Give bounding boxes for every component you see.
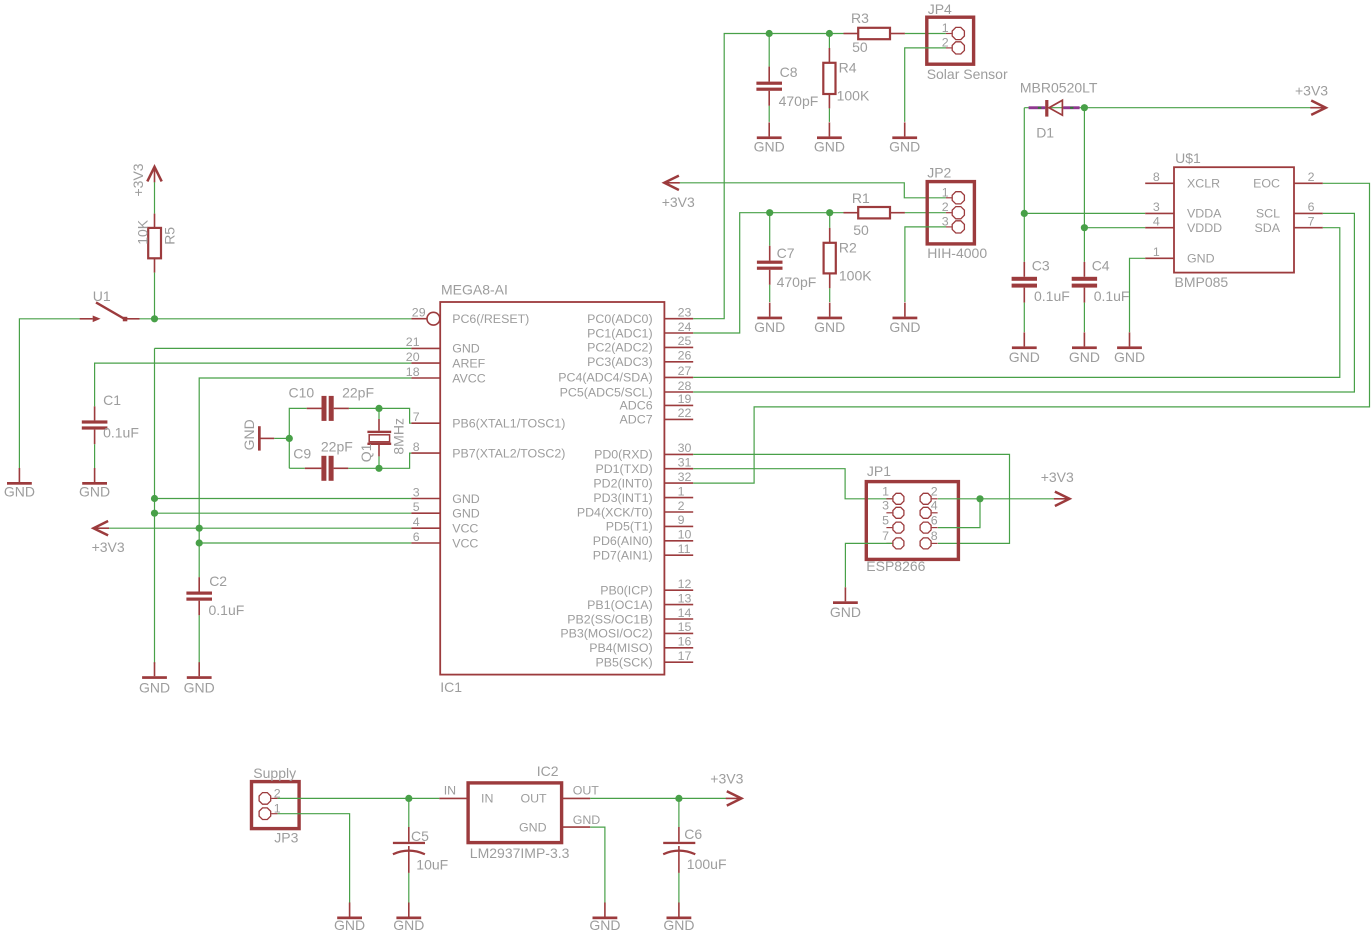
svg-text:U1: U1 — [93, 288, 111, 304]
svg-text:PC6(/RESET): PC6(/RESET) — [452, 312, 529, 326]
power +3V3 (left arrow) — [92, 521, 125, 555]
svg-text:PC0(ADC0): PC0(ADC0) — [587, 312, 652, 326]
wire — [109, 527, 411, 529]
svg-text:4: 4 — [1153, 215, 1160, 229]
ground — [754, 122, 785, 154]
connector JP3 Supply — [252, 765, 300, 846]
svg-text:C5: C5 — [411, 828, 429, 844]
svg-text:C9: C9 — [293, 446, 311, 462]
connector JP1 ESP8266 — [866, 463, 958, 574]
svg-text:23: 23 — [678, 306, 692, 320]
wire — [198, 615, 200, 664]
ground — [814, 303, 845, 336]
svg-text:10K: 10K — [134, 219, 150, 245]
svg-text:ESP8266: ESP8266 — [866, 558, 925, 574]
svg-text:10uF: 10uF — [416, 856, 448, 872]
svg-text:+3V3: +3V3 — [130, 163, 146, 196]
svg-text:PB6(XTAL1/TOSC1): PB6(XTAL1/TOSC1) — [452, 417, 565, 431]
svg-text:SDA: SDA — [1255, 221, 1281, 235]
svg-text:9: 9 — [678, 513, 685, 527]
op-amp U$1 BMP085 — [1145, 150, 1323, 290]
svg-text:R4: R4 — [839, 60, 857, 76]
svg-text:GND: GND — [814, 139, 845, 155]
wire — [155, 512, 412, 514]
ground — [754, 303, 785, 336]
wire — [289, 408, 306, 468]
wire — [693, 213, 843, 333]
capacitor C3 — [1012, 257, 1070, 304]
wire — [154, 348, 156, 664]
svg-text:22: 22 — [678, 406, 692, 420]
capacitor C6 — [663, 798, 726, 873]
svg-text:PD1(TXD): PD1(TXD) — [595, 462, 652, 476]
svg-text:GND: GND — [754, 319, 785, 335]
ground — [663, 903, 694, 933]
resistor R3 — [844, 10, 905, 55]
svg-text:GND: GND — [1187, 252, 1215, 266]
connector JP4 Solar Sensor — [927, 1, 1008, 82]
capacitor C5 — [393, 798, 448, 873]
resistor R1 — [844, 190, 905, 238]
wire — [379, 408, 411, 423]
ground — [589, 903, 620, 933]
capacitor C9 — [289, 438, 353, 481]
svg-text:OUT: OUT — [573, 784, 600, 798]
wire — [274, 437, 289, 439]
svg-text:4: 4 — [413, 515, 420, 529]
svg-text:HIH-4000: HIH-4000 — [927, 245, 987, 261]
wire — [199, 542, 411, 544]
svg-text:BMP085: BMP085 — [1175, 274, 1229, 290]
svg-text:+3V3: +3V3 — [710, 770, 743, 786]
svg-text:2: 2 — [931, 485, 938, 499]
svg-text:IN: IN — [444, 784, 456, 798]
svg-text:GND: GND — [754, 139, 785, 155]
wire — [199, 378, 411, 577]
wire — [693, 213, 1354, 392]
wire — [154, 273, 156, 319]
capacitor C10 — [289, 384, 375, 421]
svg-text:JP4: JP4 — [928, 1, 952, 17]
node junction — [766, 30, 773, 37]
power +3V3 (left arrow) — [662, 176, 695, 210]
wire — [19, 319, 79, 469]
svg-text:7: 7 — [413, 410, 420, 424]
svg-text:20: 20 — [406, 350, 420, 364]
wire — [379, 453, 411, 468]
svg-text:PB2(SS/OC1B): PB2(SS/OC1B) — [567, 612, 652, 626]
svg-text:C7: C7 — [777, 245, 795, 261]
svg-text:470pF: 470pF — [779, 93, 819, 109]
svg-text:LM2937IMP-3.3: LM2937IMP-3.3 — [470, 845, 570, 861]
node junction — [766, 209, 773, 216]
svg-text:IC1: IC1 — [440, 679, 462, 695]
capacitor C7 — [757, 213, 816, 291]
svg-text:PD2(INT0): PD2(INT0) — [593, 476, 652, 490]
svg-text:GND: GND — [889, 319, 920, 335]
svg-text:27: 27 — [678, 364, 692, 378]
node junction — [375, 465, 382, 472]
wire — [680, 183, 946, 198]
svg-text:GND: GND — [184, 679, 215, 695]
svg-text:IN: IN — [481, 792, 493, 806]
svg-text:ADC7: ADC7 — [620, 413, 653, 427]
ground — [814, 122, 845, 154]
svg-text:30: 30 — [678, 441, 692, 455]
svg-text:1: 1 — [882, 485, 889, 499]
svg-text:IC2: IC2 — [537, 763, 559, 779]
node junction — [375, 405, 382, 412]
wire — [828, 108, 830, 122]
svg-text:6: 6 — [413, 530, 420, 544]
svg-text:4: 4 — [931, 499, 938, 513]
svg-text:13: 13 — [678, 591, 692, 605]
svg-text:GND: GND — [589, 917, 620, 933]
svg-text:3: 3 — [413, 485, 420, 499]
svg-text:6: 6 — [1308, 200, 1315, 214]
wire — [678, 873, 680, 903]
capacitor C1 — [82, 392, 139, 444]
wire — [693, 469, 892, 499]
wire — [349, 407, 379, 409]
wire — [378, 408, 380, 419]
svg-text:PC1(ADC1): PC1(ADC1) — [587, 326, 652, 340]
svg-text:PB3(MOSI/OC2): PB3(MOSI/OC2) — [560, 627, 652, 641]
svg-text:MBR0520LT: MBR0520LT — [1020, 79, 1098, 95]
svg-text:C10: C10 — [289, 384, 315, 400]
svg-text:GND: GND — [452, 342, 480, 356]
svg-text:5: 5 — [413, 500, 420, 514]
svg-text:ADC6: ADC6 — [620, 399, 653, 413]
svg-text:Supply: Supply — [253, 765, 296, 781]
svg-text:OUT: OUT — [520, 792, 547, 806]
svg-text:15: 15 — [678, 620, 692, 634]
wire — [693, 183, 1369, 483]
wire — [829, 288, 831, 302]
wire — [693, 454, 1009, 543]
svg-text:GND: GND — [889, 139, 920, 155]
connector JP2 HIH-4000 — [927, 165, 987, 261]
svg-text:29: 29 — [412, 306, 426, 320]
svg-text:10: 10 — [678, 528, 692, 542]
wire — [348, 467, 379, 469]
power +3V3 (right arrow) — [1295, 82, 1328, 115]
wire — [278, 814, 350, 903]
svg-text:GND: GND — [663, 917, 694, 933]
ground — [393, 903, 424, 933]
svg-text:0.1uF: 0.1uF — [1094, 288, 1130, 304]
svg-text:GND: GND — [814, 319, 845, 335]
svg-text:GND: GND — [830, 604, 861, 620]
svg-text:GND: GND — [4, 483, 35, 499]
node junction — [1081, 224, 1088, 231]
svg-text:GND: GND — [393, 917, 424, 933]
svg-text:31: 31 — [678, 456, 692, 470]
wire — [938, 498, 1054, 500]
svg-text:PB5(SCK): PB5(SCK) — [595, 656, 652, 670]
wire — [154, 182, 156, 213]
diode D1 MBR0520LT — [1020, 79, 1098, 140]
wire — [94, 444, 96, 468]
wire — [845, 543, 892, 587]
node junction — [405, 795, 412, 802]
capacitor C4 — [1072, 257, 1130, 304]
wire — [693, 34, 843, 319]
svg-text:3: 3 — [882, 499, 889, 513]
svg-text:21: 21 — [406, 335, 420, 349]
svg-text:7: 7 — [882, 529, 889, 543]
node junction — [1021, 210, 1028, 217]
svg-text:8: 8 — [1153, 170, 1160, 184]
svg-text:2: 2 — [1308, 170, 1315, 184]
svg-text:12: 12 — [678, 577, 692, 591]
svg-text:22pF: 22pF — [321, 438, 353, 454]
wire — [1130, 258, 1146, 332]
svg-text:1: 1 — [678, 484, 685, 498]
svg-text:VCC: VCC — [452, 522, 478, 536]
wire — [768, 106, 770, 122]
svg-text:PC2(ADC2): PC2(ADC2) — [587, 341, 652, 355]
power +3V3 (top left) — [130, 163, 162, 196]
svg-text:XCLR: XCLR — [1187, 177, 1220, 191]
wire — [1024, 212, 1145, 214]
wire — [1023, 303, 1025, 333]
svg-text:EOC: EOC — [1253, 177, 1280, 191]
switch U1 — [80, 288, 140, 322]
svg-text:+3V3: +3V3 — [1041, 469, 1074, 485]
svg-text:6: 6 — [931, 513, 938, 527]
svg-text:PD7(AIN1): PD7(AIN1) — [593, 549, 653, 563]
svg-text:11: 11 — [678, 542, 691, 556]
svg-text:0.1uF: 0.1uF — [1034, 288, 1070, 304]
svg-text:PB0(ICP): PB0(ICP) — [600, 584, 652, 598]
wire — [769, 285, 771, 302]
svg-text:GND: GND — [1069, 349, 1100, 365]
svg-text:16: 16 — [678, 635, 692, 649]
svg-text:32: 32 — [678, 470, 692, 484]
svg-text:24: 24 — [678, 320, 692, 334]
wire — [1084, 227, 1145, 229]
svg-text:PD6(AIN0): PD6(AIN0) — [593, 534, 653, 548]
svg-text:14: 14 — [678, 606, 692, 620]
wire — [278, 797, 440, 799]
node junction — [196, 539, 203, 546]
ground — [1009, 332, 1040, 365]
node junction — [151, 510, 158, 517]
svg-text:SCL: SCL — [1256, 207, 1280, 221]
svg-text:Q1: Q1 — [358, 443, 374, 462]
node junction — [1081, 104, 1088, 111]
node junction — [286, 435, 293, 442]
svg-text:PD4(XCK/T0): PD4(XCK/T0) — [577, 505, 653, 519]
svg-text:U$1: U$1 — [1175, 150, 1201, 166]
svg-text:17: 17 — [678, 649, 692, 663]
svg-text:C3: C3 — [1032, 257, 1050, 273]
resistor R4 — [823, 34, 870, 109]
svg-text:26: 26 — [678, 349, 692, 363]
ground — [889, 303, 920, 336]
svg-text:25: 25 — [678, 334, 692, 348]
svg-text:GND: GND — [1009, 349, 1040, 365]
svg-text:VDDD: VDDD — [1187, 221, 1222, 235]
crystal Q1 — [358, 418, 406, 462]
svg-text:100K: 100K — [839, 268, 872, 284]
svg-text:PB1(OC1A): PB1(OC1A) — [587, 598, 652, 612]
svg-text:GND: GND — [79, 483, 110, 499]
node junction — [196, 525, 203, 532]
svg-text:0.1uF: 0.1uF — [209, 602, 245, 618]
svg-text:18: 18 — [406, 365, 420, 379]
ground — [1069, 332, 1100, 365]
op-amp IC2 LM2937IMP-3.3 — [439, 763, 600, 861]
svg-text:PB7(XTAL2/TOSC2): PB7(XTAL2/TOSC2) — [452, 446, 565, 460]
wire — [1083, 108, 1085, 262]
svg-text:GND: GND — [573, 813, 601, 827]
svg-text:AREF: AREF — [452, 356, 485, 370]
wire — [155, 498, 412, 500]
svg-text:28: 28 — [678, 379, 692, 393]
svg-text:22pF: 22pF — [342, 384, 374, 400]
ground — [889, 122, 920, 154]
svg-text:R3: R3 — [851, 10, 869, 26]
wire — [905, 33, 946, 35]
svg-text:100K: 100K — [837, 88, 870, 104]
resistor R2 — [824, 213, 873, 289]
svg-text:1: 1 — [942, 21, 949, 35]
svg-text:+3V3: +3V3 — [1295, 82, 1328, 98]
svg-text:GND: GND — [334, 917, 365, 933]
svg-text:JP3: JP3 — [274, 830, 298, 846]
svg-text:GND: GND — [452, 492, 480, 506]
svg-text:7: 7 — [1308, 215, 1315, 229]
svg-text:8MHz: 8MHz — [390, 418, 406, 455]
wire — [905, 212, 946, 214]
resistor R5 — [134, 214, 177, 273]
svg-text:+3V3: +3V3 — [92, 539, 125, 555]
svg-text:PC3(ADC3): PC3(ADC3) — [587, 355, 652, 369]
wire — [95, 363, 412, 406]
svg-text:GND: GND — [519, 820, 547, 834]
op-amp IC1 MEGA8-AI — [406, 281, 693, 695]
capacitor C8 — [756, 34, 818, 109]
svg-text:PB4(MISO): PB4(MISO) — [589, 641, 652, 655]
svg-text:8: 8 — [931, 529, 938, 543]
svg-text:MEGA8-AI: MEGA8-AI — [441, 281, 508, 297]
svg-text:C8: C8 — [780, 64, 798, 80]
ground — [184, 662, 215, 695]
wire — [905, 48, 946, 122]
svg-text:+3V3: +3V3 — [662, 194, 695, 210]
wire — [408, 873, 410, 903]
ground (rotated) — [241, 419, 274, 450]
node junction — [976, 495, 983, 502]
wire — [1024, 107, 1084, 109]
ground — [1114, 332, 1145, 365]
node RESET junction — [151, 315, 158, 322]
svg-text:100uF: 100uF — [687, 856, 727, 872]
power +3V3 (right arrow) — [1041, 469, 1074, 506]
wire — [140, 318, 412, 320]
svg-text:C4: C4 — [1092, 257, 1110, 273]
wire — [1083, 303, 1085, 333]
node junction — [826, 30, 833, 37]
ground — [79, 468, 110, 499]
ground — [4, 468, 35, 499]
svg-text:2: 2 — [942, 200, 949, 214]
wire — [378, 456, 380, 468]
wire — [1084, 107, 1310, 109]
svg-text:PC4(ADC4/SDA): PC4(ADC4/SDA) — [558, 371, 652, 385]
svg-text:C6: C6 — [684, 826, 702, 842]
node junction — [675, 795, 682, 802]
svg-text:PD0(RXD): PD0(RXD) — [594, 448, 653, 462]
svg-text:PD3(INT1): PD3(INT1) — [593, 491, 652, 505]
ground — [139, 662, 170, 695]
capacitor C2 — [186, 573, 244, 618]
svg-text:C1: C1 — [103, 392, 121, 408]
node junction — [151, 495, 158, 502]
svg-text:5: 5 — [882, 513, 889, 527]
svg-text:19: 19 — [678, 392, 692, 406]
wire — [590, 797, 726, 799]
svg-text:GND: GND — [452, 507, 480, 521]
svg-text:R2: R2 — [839, 239, 857, 255]
svg-text:Solar Sensor: Solar Sensor — [927, 66, 1008, 82]
ground — [830, 587, 861, 620]
wire — [1023, 108, 1025, 262]
svg-text:VCC: VCC — [452, 536, 478, 550]
svg-text:3: 3 — [1153, 200, 1160, 214]
svg-text:GND: GND — [241, 419, 257, 450]
svg-text:PD5(T1): PD5(T1) — [606, 520, 653, 534]
wire — [905, 227, 946, 302]
wire — [693, 228, 1340, 378]
svg-text:470pF: 470pF — [777, 274, 817, 290]
svg-text:PC5(ADC5/SCL): PC5(ADC5/SCL) — [560, 385, 653, 399]
svg-text:GND: GND — [139, 679, 170, 695]
svg-text:AVCC: AVCC — [452, 371, 486, 385]
svg-text:R1: R1 — [852, 190, 870, 206]
svg-text:R5: R5 — [162, 227, 178, 245]
svg-text:D1: D1 — [1036, 125, 1054, 141]
node junction — [826, 209, 833, 216]
svg-text:VDDA: VDDA — [1187, 207, 1222, 221]
svg-text:GND: GND — [1114, 349, 1145, 365]
svg-text:50: 50 — [853, 222, 869, 238]
wire — [155, 347, 412, 349]
svg-text:JP1: JP1 — [867, 463, 891, 479]
svg-text:1: 1 — [942, 185, 949, 199]
svg-text:50: 50 — [852, 39, 868, 55]
svg-text:JP2: JP2 — [927, 165, 951, 181]
wire — [590, 827, 605, 903]
power +3V3 (right arrow) — [710, 770, 743, 805]
svg-text:2: 2 — [678, 499, 685, 513]
svg-text:8: 8 — [413, 440, 420, 454]
svg-text:0.1uF: 0.1uF — [103, 424, 139, 440]
wire — [938, 499, 980, 528]
svg-text:C2: C2 — [209, 573, 227, 589]
svg-text:1: 1 — [1153, 245, 1160, 259]
ground — [334, 903, 365, 933]
